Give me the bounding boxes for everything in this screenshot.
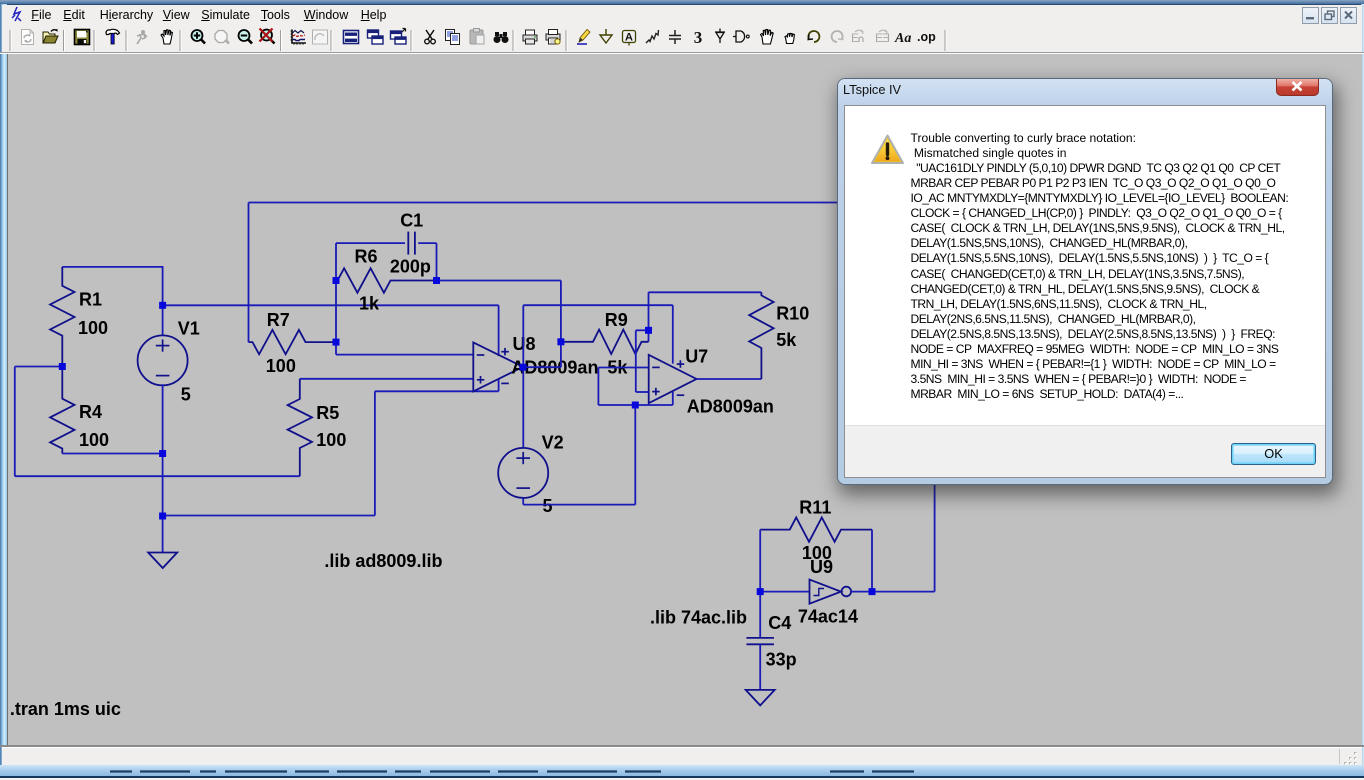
MDI child buttons xyxy=(1302,7,1319,24)
toolbar xyxy=(2,25,1362,52)
op-amp U7 xyxy=(649,355,697,403)
inverter U9 (74ac14) xyxy=(810,580,842,604)
wire: R10 top rail xyxy=(649,291,762,293)
svg-text:1k: 1k xyxy=(359,294,380,314)
wire: U9 input xyxy=(760,591,809,593)
capacitor C1 xyxy=(407,232,409,255)
svg-text:V1: V1 xyxy=(178,319,200,339)
wire: R11 left leg down to U9 input xyxy=(759,530,761,592)
left window border xyxy=(0,4,7,775)
wire: left rail from R1/R4 node xyxy=(15,366,63,368)
junction node J5 xyxy=(333,277,340,284)
svg-text:R6: R6 xyxy=(355,246,378,266)
svg-text:33p: 33p xyxy=(766,650,797,670)
junction node J6 xyxy=(433,277,440,284)
svg-text:R11: R11 xyxy=(799,497,831,517)
svg-text:100: 100 xyxy=(266,356,296,376)
wire: inverting input of U8 xyxy=(335,342,337,355)
menu bar xyxy=(2,5,1362,26)
right window border xyxy=(1361,4,1364,775)
warning icon xyxy=(870,134,906,166)
svg-text:U9: U9 xyxy=(810,557,833,577)
resistor R11 xyxy=(760,517,872,541)
junction node J1 xyxy=(59,363,66,370)
resistor R6 xyxy=(336,268,437,292)
svg-text:R5: R5 xyxy=(316,403,339,423)
wire: U7 output to R10 xyxy=(697,378,762,380)
resistor R10 xyxy=(749,292,773,379)
wire: R6 node down to R7 node xyxy=(335,281,337,343)
wire: C4 bottom lead xyxy=(759,644,761,690)
LTspice IV error dialog xyxy=(838,79,1332,484)
wire: C4 top lead xyxy=(759,592,761,638)
wire: V2 bottom to U7 + node xyxy=(522,498,524,505)
svg-text:100: 100 xyxy=(79,430,109,450)
wire: bottom rail to R5 xyxy=(15,475,300,477)
wire: step to U7 non-inverting input xyxy=(636,329,649,331)
svg-text:.lib 74ac.lib: .lib 74ac.lib xyxy=(650,607,747,627)
svg-text:100: 100 xyxy=(78,318,108,338)
junction node J9 xyxy=(557,338,564,345)
svg-text:200p: 200p xyxy=(390,257,431,277)
svg-text:5: 5 xyxy=(543,496,553,516)
wire: R11 right leg down xyxy=(871,530,873,592)
ground (V1) xyxy=(148,553,177,569)
resistor R9 xyxy=(561,330,649,354)
svg-text:U7: U7 xyxy=(685,346,708,366)
junction node J13 xyxy=(869,588,876,595)
wire: top feedback rail xyxy=(249,202,841,204)
wire: non-inverting input of U8 xyxy=(300,378,474,380)
wire: U8 V- to ground rail xyxy=(498,379,500,391)
ground (C4) xyxy=(746,690,775,706)
junction node J12 xyxy=(757,588,764,595)
junction node J8 xyxy=(519,364,526,371)
junction node J4 xyxy=(159,513,166,520)
junction node J7 xyxy=(333,339,340,346)
svg-text:R10: R10 xyxy=(776,303,809,323)
op-amp U8 xyxy=(473,342,523,391)
wire: output vertical under dialog xyxy=(934,484,936,592)
wire: U7 inverting input loop xyxy=(598,367,648,369)
wire: R9 right to top node xyxy=(648,292,650,342)
svg-text:R1: R1 xyxy=(79,290,102,310)
wire: U7 V- stub xyxy=(672,391,674,405)
junction node J2 xyxy=(159,302,166,309)
wire: U8 output xyxy=(523,366,561,368)
svg-text:5k: 5k xyxy=(776,330,797,350)
svg-text:.tran 1ms uic: .tran 1ms uic xyxy=(10,699,121,719)
wire: output node vertical to V2 xyxy=(522,305,524,448)
voltage source V1 xyxy=(138,335,188,385)
voltage source V2 xyxy=(498,448,548,498)
svg-text:74ac14: 74ac14 xyxy=(798,607,858,627)
junction node J10 xyxy=(645,327,652,334)
wire: R4 bottom to V1 bottom xyxy=(62,453,162,455)
bottom chrome xyxy=(0,745,1364,747)
wire: V1 bottom vertical to ground xyxy=(162,384,164,552)
resistor R5 xyxy=(288,379,312,476)
svg-text:5: 5 xyxy=(181,385,191,405)
svg-text:.lib ad8009.lib: .lib ad8009.lib xyxy=(324,551,442,571)
window top border strip xyxy=(0,0,1364,5)
capacitor C4 xyxy=(746,637,774,639)
junction node J11 xyxy=(632,402,639,409)
junction node J3 xyxy=(159,450,166,457)
wire: V1 top lead vertical xyxy=(162,267,164,336)
wire: R1 top to V1 top xyxy=(62,266,163,268)
svg-text:R4: R4 xyxy=(79,402,102,422)
wire: V1+ rail to U8 V+ xyxy=(163,304,499,306)
svg-text:R9: R9 xyxy=(605,310,628,330)
wire: rail to U7 V+ xyxy=(523,304,673,306)
svg-text:R7: R7 xyxy=(267,310,290,330)
resistor R1 xyxy=(50,267,74,367)
svg-text:C1: C1 xyxy=(400,210,423,230)
wire: U9 output xyxy=(851,591,872,593)
resistor R7 xyxy=(249,330,337,354)
svg-text:100: 100 xyxy=(316,430,346,450)
svg-text:V2: V2 xyxy=(542,432,564,452)
svg-text:AD8009an: AD8009an xyxy=(687,397,774,417)
wire: output up to C1/R6 feedback xyxy=(560,281,562,368)
resistor R4 xyxy=(50,367,74,454)
capacitor C1 branch xyxy=(335,243,337,280)
svg-text:C4: C4 xyxy=(768,613,791,633)
